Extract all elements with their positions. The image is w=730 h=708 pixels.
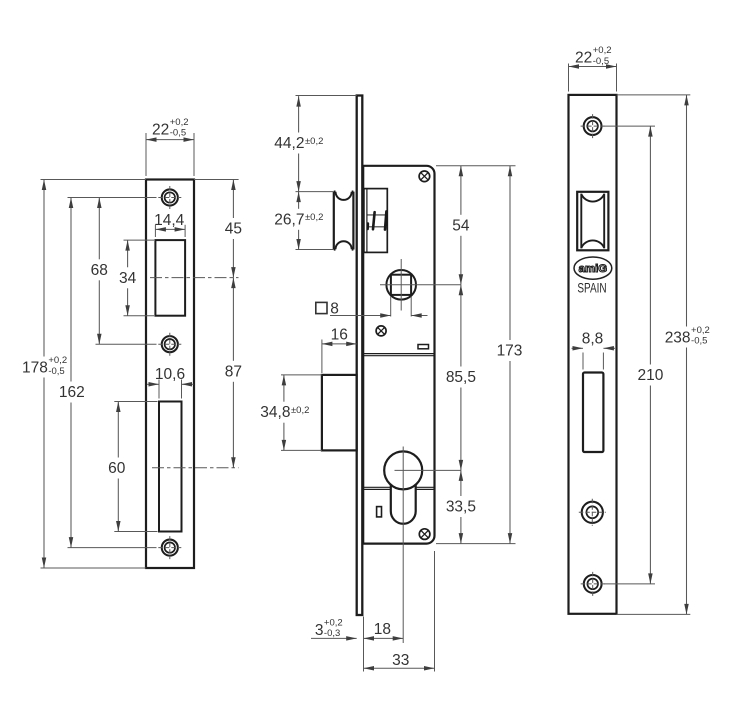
left view: dimension 60 bbox=[117, 402, 119, 458]
svg-text:+0,2: +0,2 bbox=[593, 45, 612, 56]
left view: middle screw hole bbox=[162, 336, 178, 352]
svg-text:87: 87 bbox=[225, 363, 242, 380]
svg-text:68: 68 bbox=[91, 262, 108, 279]
left view: deadbolt centre line bbox=[152, 467, 239, 469]
svg-text:-0,5: -0,5 bbox=[170, 128, 186, 139]
left view: latch cutout bbox=[155, 240, 185, 316]
svg-text:+0,2: +0,2 bbox=[48, 355, 67, 366]
left view: dimension 14,4 bbox=[155, 228, 185, 230]
left view: extension lines bbox=[145, 133, 147, 176]
svg-text:22: 22 bbox=[152, 121, 169, 138]
left view: top screw hole bbox=[162, 189, 178, 205]
middle view: follower crosshair bbox=[400, 259, 402, 311]
left view: dimension 45 bbox=[232, 180, 234, 219]
svg-text:+0,2: +0,2 bbox=[324, 618, 343, 629]
svg-text:45: 45 bbox=[225, 221, 242, 238]
left view: dimension 162 bbox=[70, 198, 72, 382]
right view: faceplate outline bbox=[569, 95, 617, 614]
svg-text:±0,2: ±0,2 bbox=[305, 212, 323, 223]
right view: bottom screw hole bbox=[584, 575, 602, 593]
svg-text:238: 238 bbox=[665, 329, 691, 346]
middle view: euro cylinder profile bbox=[384, 451, 422, 489]
middle view: stop slide bbox=[418, 345, 429, 349]
svg-text:162: 162 bbox=[59, 384, 85, 401]
svg-text:33,5: 33,5 bbox=[446, 499, 476, 516]
svg-text:-0,5: -0,5 bbox=[48, 366, 64, 377]
right view: AMIG logo ellipse bbox=[574, 257, 612, 279]
svg-text:178: 178 bbox=[22, 359, 48, 376]
middle view: case screw centre bbox=[376, 326, 386, 336]
svg-text:16: 16 bbox=[331, 326, 348, 343]
svg-text:22: 22 bbox=[575, 49, 592, 66]
middle view: dimension 16 bbox=[322, 343, 357, 345]
left view: deadbolt cutout bbox=[159, 402, 182, 532]
middle view: latch spring bbox=[368, 214, 388, 216]
right view: dimension 210 bbox=[649, 126, 651, 364]
left view: strike plate outline bbox=[146, 180, 194, 569]
middle view: case divider line lower bbox=[362, 486, 390, 488]
middle view: latch spring box bbox=[364, 189, 387, 253]
middle view: lock case outline bbox=[362, 166, 434, 544]
right view: dimension 22 +0.2 -0.5 bbox=[569, 66, 617, 68]
svg-text:85,5: 85,5 bbox=[446, 369, 476, 386]
right view: dimension 238 +0.2 -0.5 bbox=[686, 95, 688, 327]
svg-text:10,6: 10,6 bbox=[155, 366, 185, 383]
left view: latch centre line bbox=[150, 277, 239, 279]
svg-text:+0,2: +0,2 bbox=[170, 117, 189, 128]
left view: dimension 22 +0.2 -0.5 bbox=[146, 139, 194, 141]
middle view: dimension square 8 bbox=[330, 315, 391, 317]
middle view: dimension 54 bbox=[460, 166, 462, 215]
middle view: deadbolt thrown (side) bbox=[322, 375, 357, 451]
middle view: dimension 173 bbox=[509, 166, 511, 340]
svg-text:8: 8 bbox=[330, 301, 339, 318]
middle view: square follower circle bbox=[386, 270, 416, 300]
middle view: faceplate strip bbox=[357, 96, 363, 616]
left view: dimension 178 +0.2 -0.5 bbox=[43, 180, 45, 357]
svg-text:44,2: 44,2 bbox=[274, 135, 304, 152]
left view: bottom screw hole bbox=[162, 540, 178, 556]
svg-text:+0,2: +0,2 bbox=[691, 325, 710, 336]
svg-text:14,4: 14,4 bbox=[154, 212, 185, 229]
svg-text:-0,5: -0,5 bbox=[593, 56, 609, 67]
svg-text:60: 60 bbox=[108, 460, 126, 477]
svg-text:26,7: 26,7 bbox=[274, 211, 304, 228]
right view: latch roller (front) bbox=[581, 194, 604, 249]
middle view: dimension 3 +0.2 -0.3 bbox=[311, 637, 357, 639]
middle view: case divider line upper bbox=[362, 353, 434, 355]
svg-text:18: 18 bbox=[374, 621, 391, 638]
left view: dimension 68 bbox=[98, 198, 100, 260]
middle view: dimension 18 bbox=[364, 637, 404, 639]
svg-text:±0,2: ±0,2 bbox=[305, 136, 323, 147]
left view: dimension 87 bbox=[232, 278, 234, 361]
right view: deadbolt cutout bbox=[583, 373, 603, 453]
svg-text:210: 210 bbox=[637, 367, 663, 384]
right view: latch cutout bbox=[577, 192, 608, 251]
svg-text:34: 34 bbox=[119, 270, 137, 287]
svg-text:54: 54 bbox=[452, 217, 470, 234]
middle view: keyhole slot bbox=[377, 507, 382, 517]
svg-text:3: 3 bbox=[315, 622, 324, 639]
middle view: dimension 33 bbox=[364, 667, 435, 669]
middle view: cylinder centre line bbox=[402, 447, 404, 644]
middle view: case screw top bbox=[419, 171, 430, 182]
left view: dimension 34 bbox=[127, 240, 129, 267]
svg-text:-0,5: -0,5 bbox=[691, 336, 707, 347]
right view: middle screw hole bbox=[582, 502, 603, 523]
middle view: dimension 26,7 +-0.2 bbox=[298, 192, 300, 209]
svg-text:173: 173 bbox=[497, 343, 523, 360]
left view: dimension 10,6 bbox=[147, 383, 159, 385]
svg-text:-0,3: -0,3 bbox=[324, 628, 340, 639]
right view: dimension 8,8 bbox=[572, 347, 584, 349]
middle view: case screw bottom bbox=[419, 529, 430, 540]
svg-text:amiG: amiG bbox=[579, 263, 608, 275]
svg-text:±0,2: ±0,2 bbox=[291, 405, 309, 416]
svg-text:34,8: 34,8 bbox=[260, 404, 290, 421]
svg-text:33: 33 bbox=[392, 652, 409, 669]
middle view: square follower 8mm hole bbox=[391, 275, 411, 295]
middle view: extension lines bbox=[296, 95, 357, 97]
middle view: dimension 85,5 bbox=[460, 285, 462, 367]
middle view: dimension 44,2 +-0.2 bbox=[298, 96, 300, 132]
svg-text:SPAIN: SPAIN bbox=[577, 280, 606, 296]
middle view: dimension 34,8 +-0.2 bbox=[283, 375, 285, 402]
svg-text:8,8: 8,8 bbox=[582, 330, 604, 347]
middle view: latch roller (side) bbox=[334, 192, 354, 250]
right view: top screw hole bbox=[584, 117, 602, 135]
middle view: dimension 33,5 bbox=[460, 470, 462, 496]
right view: extension lines bbox=[568, 64, 570, 92]
